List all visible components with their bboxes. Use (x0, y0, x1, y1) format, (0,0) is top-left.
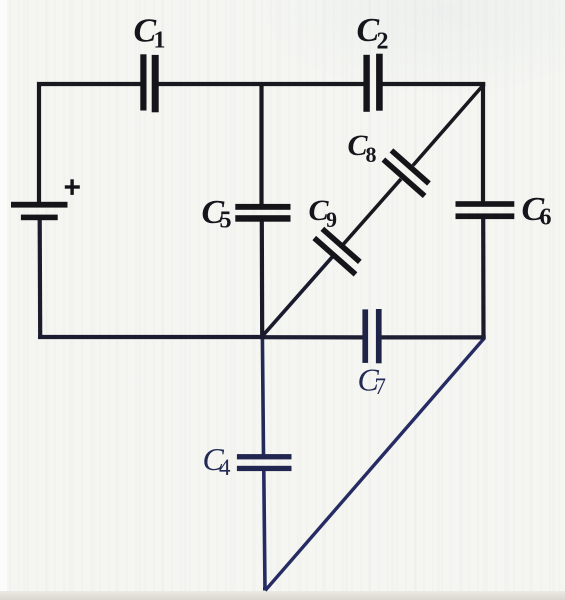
capacitor C8 (diagonal plates) (382, 148, 435, 198)
wire: top, mid T-junction to C2 (262, 82, 364, 86)
node R (bottom-right junction) (481, 335, 485, 339)
wire: middle vertical, C5 to center node O (260, 221, 265, 338)
battery polarity + sign (65, 179, 80, 195)
wire: center vertical, C4 to bottom node V (264, 471, 265, 591)
svg-text:7: 7 (375, 374, 387, 399)
wire: middle vertical, T-junction to C5 (259, 84, 263, 205)
wire: diagonal, node B to C8 (413, 85, 483, 166)
wire: right vertical, node B to C6 (481, 84, 485, 202)
svg-text:9: 9 (326, 207, 337, 232)
wire: bottom, C7 to node R (382, 335, 486, 339)
capacitor C4 (237, 454, 292, 471)
wire: diagonal, node R to bottom node V (265, 339, 484, 591)
wire: left, node A to battery + plate (37, 82, 41, 203)
wire: left, battery - plate to bottom-left corner (38, 219, 43, 338)
svg-text:4: 4 (219, 455, 231, 480)
svg-text:5: 5 (220, 207, 232, 233)
svg-text:2: 2 (377, 28, 389, 54)
wire: bottom, left corner to center node O (38, 335, 262, 339)
wire: top, C1 to mid T-junction (159, 82, 262, 86)
wire: diagonal, C8 to C9 (343, 179, 401, 244)
wire: top, node A to C1 (37, 82, 141, 86)
svg-text:6: 6 (540, 205, 552, 231)
node B (top-right corner junction) (481, 82, 485, 86)
wire: top, C2 to node B (383, 82, 486, 86)
capacitor C6 (456, 201, 515, 219)
node: top T-junction (middle branch) (259, 82, 263, 86)
node O (center junction) (260, 335, 264, 339)
capacitor C5 (235, 204, 290, 222)
svg-text:8: 8 (366, 142, 377, 167)
battery B1 (11, 202, 68, 220)
capacitor C1 (140, 54, 158, 112)
capacitor C7 (362, 309, 381, 363)
capacitor C2 (363, 54, 382, 112)
svg-text:1: 1 (154, 27, 166, 53)
wire: center vertical, node O to C4 (262, 337, 263, 455)
wire: bottom, center node O to C7 (262, 335, 362, 339)
wire: diagonal, C9 to center node O (262, 257, 332, 337)
capacitor C9 (diagonal plates) (312, 227, 365, 277)
wire: right vertical, C6 to node R (481, 219, 485, 339)
node V (bottom vertex junction) (263, 587, 267, 591)
node A (top-left corner junction) (37, 82, 41, 86)
